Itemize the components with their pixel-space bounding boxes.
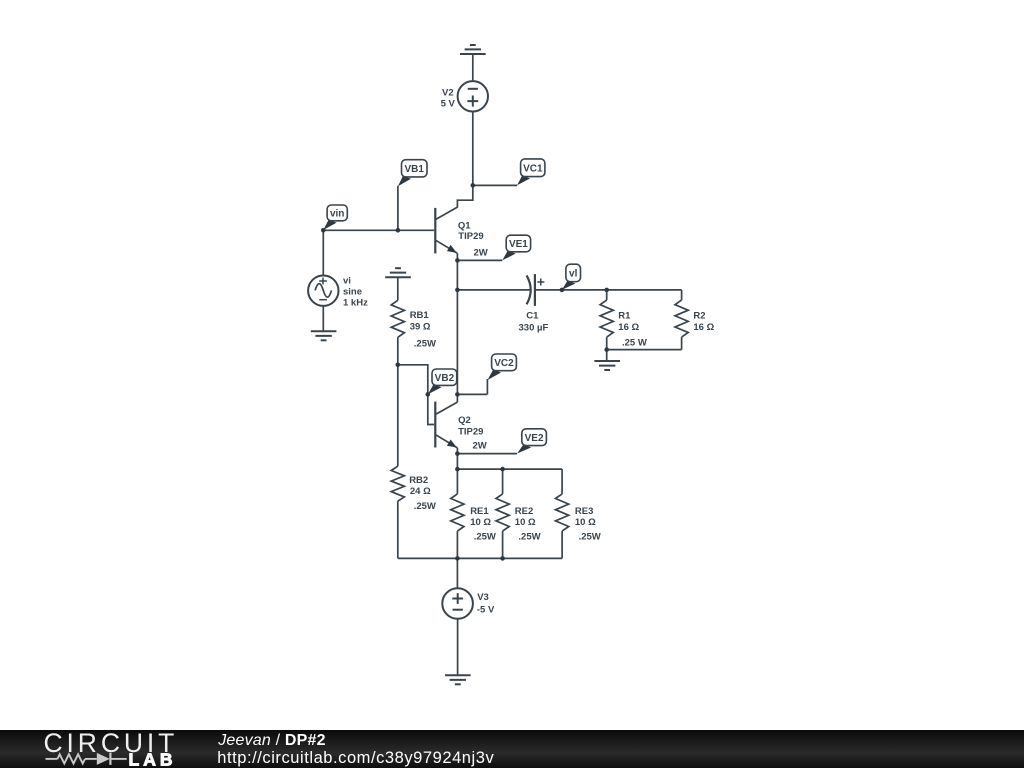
svg-text:VB1: VB1 — [404, 164, 424, 175]
svg-text:VC1: VC1 — [523, 163, 543, 174]
svg-text:10 Ω: 10 Ω — [575, 517, 596, 528]
RB2 value labels — [409, 475, 436, 512]
svg-text:VE2: VE2 — [525, 433, 544, 444]
voltage source V3 — [442, 588, 473, 619]
svg-text:TIP29: TIP29 — [458, 426, 483, 437]
net flag vin — [323, 205, 347, 230]
RE2 value labels — [515, 506, 541, 543]
svg-text:330 µF: 330 µF — [519, 323, 549, 334]
wire RE top rail — [457, 468, 562, 470]
svg-text:2W: 2W — [474, 248, 488, 259]
RB1 value labels — [410, 310, 436, 350]
svg-text:vi: vi — [343, 276, 351, 287]
wire ground to V2 top — [472, 54, 474, 81]
vi value labels — [343, 276, 368, 309]
transistor Q1 base bar — [434, 208, 436, 254]
voltage source V2 — [458, 81, 488, 111]
svg-text:http://circuitlab.com/c38y9792: http://circuitlab.com/c38y97924nj3v — [217, 749, 494, 767]
RE1 value labels — [470, 506, 496, 543]
resistor RE3 — [556, 469, 569, 558]
V3 value labels — [477, 592, 495, 615]
svg-text:LAB: LAB — [129, 750, 177, 768]
footer bar — [0, 730, 1024, 768]
wire Q2 emitter down — [456, 448, 458, 469]
transistor Q2 base bar — [434, 402, 436, 448]
Q1 name labels — [458, 221, 488, 259]
svg-text:.25W: .25W — [414, 501, 436, 512]
net flag VB2 — [428, 369, 457, 394]
svg-text:.25W: .25W — [518, 532, 540, 543]
wire Q1 emitter down to Q2 collector — [456, 253, 458, 402]
net flag VC1 — [517, 159, 545, 185]
svg-text:sine: sine — [343, 287, 362, 298]
svg-text:Q2: Q2 — [458, 415, 471, 426]
svg-text:RB2: RB2 — [409, 475, 428, 486]
R2 value labels — [693, 311, 714, 334]
svg-text:RE2: RE2 — [515, 506, 533, 517]
net flag VC2 — [487, 354, 516, 394]
svg-text:V2: V2 — [442, 87, 454, 98]
svg-text:.25W: .25W — [579, 532, 601, 543]
sine source vi — [308, 276, 338, 306]
svg-text:VE1: VE1 — [509, 239, 528, 250]
svg-text:Jeevan / DP#2: Jeevan / DP#2 — [217, 732, 326, 749]
svg-text:C1: C1 — [526, 311, 539, 322]
wire bottom rail — [398, 557, 562, 559]
ground GND top of V2 — [460, 45, 486, 54]
resistor RE1 — [451, 469, 464, 558]
Q1 emitter wire with arrow — [436, 240, 458, 253]
svg-text:-5 V: -5 V — [477, 605, 495, 616]
RE3 value labels — [575, 506, 601, 543]
svg-text:.25W: .25W — [414, 338, 436, 349]
svg-text:VC2: VC2 — [494, 358, 514, 369]
svg-text:RE1: RE1 — [470, 506, 489, 517]
wire node VE1 — [457, 259, 502, 261]
wire C1 to R2 top corner — [535, 289, 682, 291]
ground GND below R1 — [594, 361, 620, 370]
svg-text:vin: vin — [330, 209, 344, 220]
net flag VE2 — [517, 429, 546, 454]
wire RB1 junction to Q2 base — [398, 365, 434, 425]
ground GND top of RB1 — [385, 268, 411, 277]
Q2 name labels — [458, 415, 487, 452]
V2 value labels — [441, 87, 456, 109]
svg-text:R2: R2 — [693, 311, 705, 322]
wire vi to ground — [322, 306, 324, 331]
resistor RE2 — [496, 469, 509, 558]
svg-text:10 Ω: 10 Ω — [515, 517, 536, 528]
svg-text:5 V: 5 V — [441, 99, 456, 110]
wire vin down to vi source — [322, 230, 324, 275]
Q1 collector staircase wire — [436, 185, 473, 219]
resistor R2 — [675, 290, 688, 350]
Q2 emitter wire with arrow — [436, 435, 458, 448]
wire node VE2 — [457, 453, 517, 455]
svg-text:V3: V3 — [477, 592, 489, 603]
resistor RB1 — [391, 277, 404, 365]
svg-text:.25W: .25W — [474, 532, 496, 543]
wire R1 bottom to ground — [606, 350, 608, 361]
svg-text:16 Ω: 16 Ω — [618, 322, 639, 333]
svg-text:.25 W: .25 W — [622, 337, 647, 348]
svg-text:10 Ω: 10 Ω — [470, 517, 491, 528]
resistor RB2 — [391, 365, 404, 559]
wire node VC2 — [457, 393, 487, 395]
svg-text:VB2: VB2 — [435, 373, 455, 384]
svg-text:RE3: RE3 — [575, 506, 593, 517]
capacitor C1 — [527, 274, 545, 306]
C1 value labels — [519, 311, 549, 334]
svg-text:24 Ω: 24 Ω — [410, 486, 431, 497]
CircuitLab logo resistor-diode symbol — [46, 753, 127, 765]
net flag VE1 — [502, 235, 530, 260]
svg-text:2W: 2W — [473, 441, 487, 452]
wire vin to Q1 base — [323, 229, 434, 231]
wire V3 to ground — [457, 619, 459, 676]
wire node VC1 — [473, 184, 517, 186]
wire bottom rail to V3 — [456, 558, 458, 588]
net flag vl — [562, 264, 581, 290]
wire V2 bottom to collector node — [472, 112, 474, 186]
svg-text:Q1: Q1 — [458, 221, 471, 232]
Q2 collector staircase wire — [436, 402, 458, 414]
svg-text:1 kHz: 1 kHz — [343, 298, 368, 309]
resistor R1 — [600, 290, 613, 350]
svg-text:R1: R1 — [618, 311, 631, 322]
svg-text:TIP29: TIP29 — [458, 231, 483, 242]
ground GND below vi — [311, 331, 337, 340]
svg-text:RB1: RB1 — [410, 310, 430, 321]
svg-text:vl: vl — [569, 269, 578, 280]
wire R1 bottom to R2 bottom — [607, 349, 682, 351]
net flag VB1 — [398, 160, 427, 231]
ground GND below V3 — [445, 675, 471, 684]
svg-text:16 Ω: 16 Ω — [693, 322, 714, 333]
R1 value labels — [618, 311, 647, 349]
wire emitter node to C1 — [457, 289, 529, 291]
junction dots (nodes) — [321, 183, 609, 561]
svg-text:39 Ω: 39 Ω — [410, 322, 431, 333]
